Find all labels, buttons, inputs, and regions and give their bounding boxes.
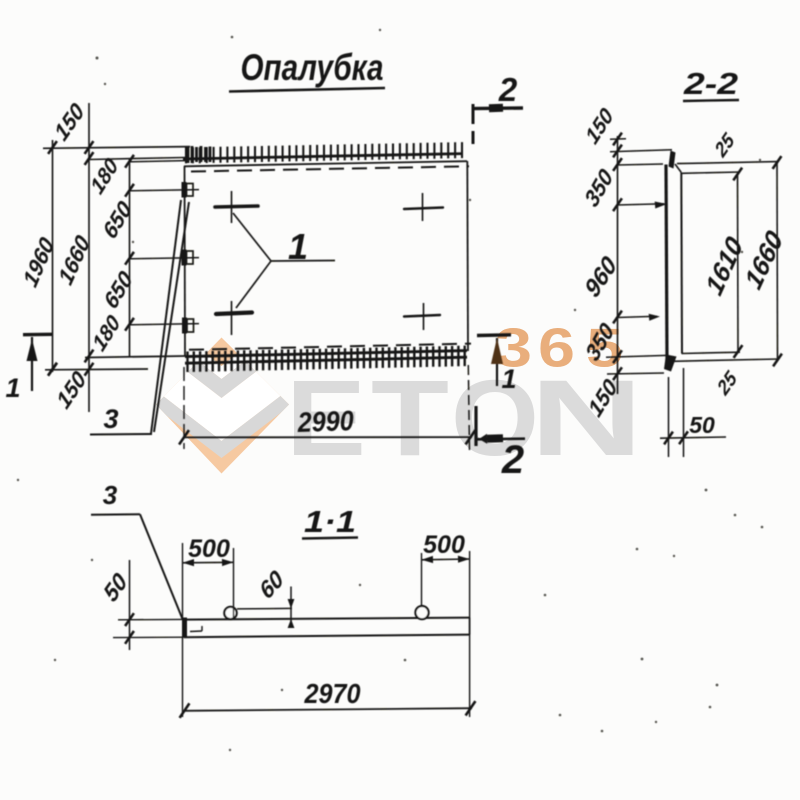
svg-text:O: O [451, 357, 539, 478]
main panel left edge [184, 166, 187, 356]
2-2 top extension line [677, 162, 778, 164]
dimension 1960 [18, 140, 59, 375]
2-2 bottom extension line [673, 359, 779, 361]
dimension 500 right [422, 531, 470, 717]
watermark beton365 logo diamond [154, 313, 291, 474]
2-2 inner top line 25 offset [682, 172, 741, 173]
watermark text 365 [495, 317, 623, 379]
title Опалубка [229, 47, 385, 92]
svg-text:Опалубка: Опалубка [241, 47, 384, 88]
left edge extension below panel [183, 367, 185, 449]
diagonal brace line b [154, 202, 189, 432]
svg-text:500: 500 [423, 531, 465, 559]
svg-text:3: 3 [103, 480, 118, 510]
dimension 1660 right [739, 156, 788, 366]
section 2-2 formwork profile [664, 151, 682, 372]
svg-text:T: T [371, 357, 449, 478]
main panel bottom edge with comb hatching [185, 346, 467, 372]
section arrow 1 left [5, 334, 52, 403]
1-1 plate [182, 618, 470, 638]
inner dimension chain (180/650/650/180) [87, 154, 199, 357]
2-2 inner bottom line [682, 352, 741, 353]
connector line at panel bottom to chain [85, 356, 185, 358]
svg-text:3: 3 [103, 404, 118, 434]
bottom dimension line 150 [45, 363, 148, 414]
label 3 with leader (main view) [90, 404, 152, 435]
dimension 2970 [180, 637, 476, 718]
cross mark bottom-right [404, 303, 440, 330]
bump circle 1 on plate [224, 607, 236, 619]
diagonal brace line a [151, 200, 181, 434]
main panel right edge [466, 161, 469, 351]
dimension 50 (section 2-2) [660, 368, 726, 457]
section marker 2 top [472, 71, 523, 144]
section 2-2 dimension chain [580, 104, 672, 422]
dimension 2990 [179, 405, 475, 444]
svg-text:2-2: 2-2 [683, 66, 738, 101]
cross mark bottom-left [216, 301, 252, 335]
clamp bracket 1 on left edge [182, 182, 194, 198]
svg-text:500: 500 [188, 535, 230, 563]
svg-text:1·1: 1·1 [304, 504, 356, 539]
bump circle 2 on plate [415, 606, 428, 619]
right edge extension dashed below panel [468, 365, 469, 451]
svg-text:2: 2 [501, 438, 524, 482]
dimension 500 left [183, 535, 234, 618]
top dimension line 150 [43, 97, 190, 154]
leader lines to label 1 [233, 213, 335, 308]
main panel bottom dashed line [189, 344, 471, 350]
section 1-1 title [302, 504, 358, 539]
connector line at panel top to chain [89, 158, 185, 160]
section marker 2 bottom [476, 406, 525, 482]
svg-text:2990: 2990 [296, 405, 354, 438]
cross mark top-right [404, 193, 443, 221]
svg-text:50: 50 [689, 412, 715, 438]
svg-text:2: 2 [498, 71, 518, 108]
dimension 60 (bump height) [237, 565, 294, 628]
clamp bracket 2 on left edge [182, 250, 194, 266]
dimension 1660 [54, 103, 95, 412]
label 3 with leader (section 1-1) [91, 480, 183, 619]
main panel top dashed line [191, 166, 469, 171]
cross mark top-left [215, 191, 258, 223]
svg-text:N: N [530, 357, 643, 478]
section 2-2 title [683, 66, 739, 101]
svg-text:2970: 2970 [304, 678, 361, 709]
svg-text:1: 1 [501, 364, 516, 394]
dimension 1610 [700, 168, 749, 358]
dimension 50 (plate thickness) [99, 560, 184, 650]
svg-text:1: 1 [288, 226, 308, 267]
main panel top edge with comb hatching [183, 142, 467, 166]
svg-text:1: 1 [5, 373, 20, 403]
clamp bracket 3 on left edge [182, 318, 194, 334]
watermark text ETON [286, 357, 643, 478]
section arrow 1 right [477, 335, 517, 394]
